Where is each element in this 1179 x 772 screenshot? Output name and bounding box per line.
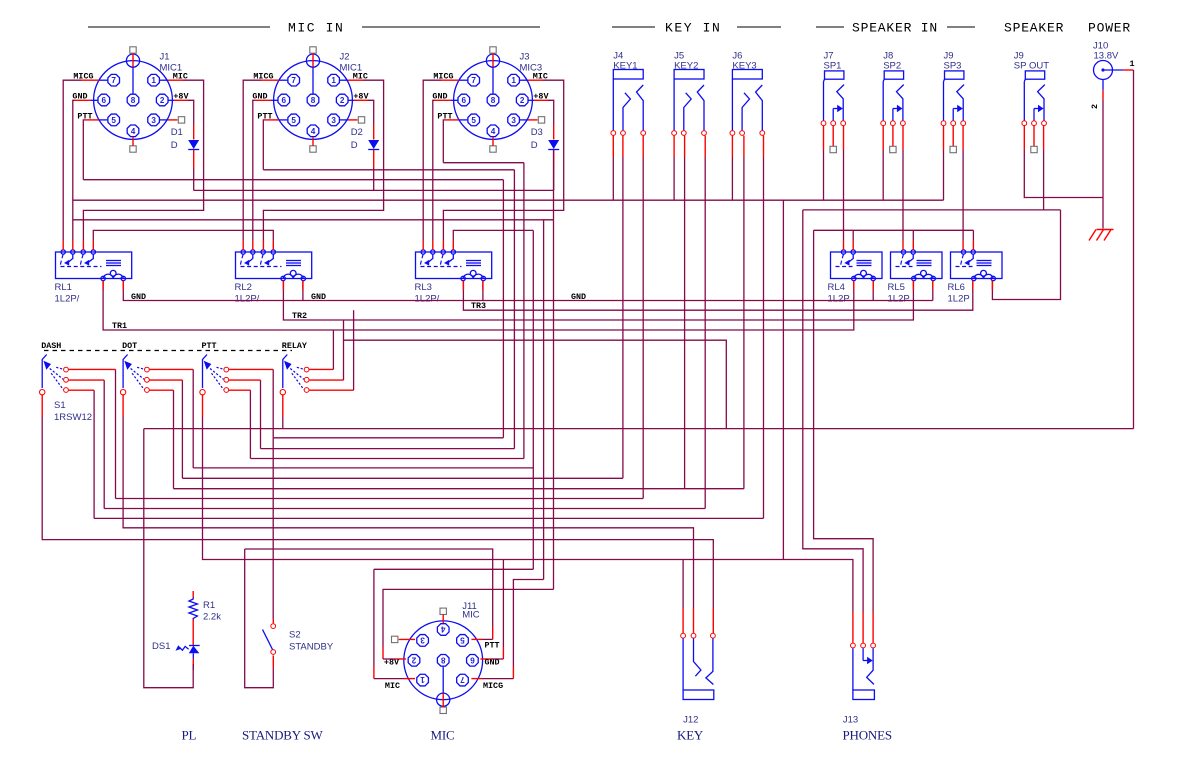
connector J1 pin 6 [98, 94, 110, 106]
diode D3 anode stub [553, 125, 555, 140]
wire J3 PTT riser segment [523, 163, 525, 459]
wire stub S1 RELAY common stub [282, 394, 284, 417]
wire stub J8 sleeve stub [882, 126, 884, 150]
svg-text:PHONES: PHONES [843, 728, 892, 743]
wire stub RL6 coil left stub [972, 281, 974, 290]
relay RL6 coil [977, 260, 992, 262]
wire J11 MIC link [373, 569, 375, 666]
pin lead MICG (pin7) [99, 79, 107, 81]
pin lead GND (pin6) [271, 99, 278, 101]
wire stub J12 ring stub [712, 608, 714, 633]
wire J3 MIC run down [443, 80, 563, 240]
switch S2 bottom stub [272, 655, 274, 668]
J11 pin 6 stub GND [480, 658, 491, 660]
connector J11 pin 4 stub [442, 615, 444, 624]
relay RL3 coil [466, 260, 481, 262]
svg-text:STANDBY: STANDBY [289, 642, 334, 653]
wire stub relay t2 stub J3 [432, 241, 434, 251]
relay RL1 contact terminal 3 [81, 250, 85, 254]
svg-text:5: 5 [111, 116, 116, 125]
connector J1 pin 4 [127, 125, 139, 137]
wire J1 MICG to relay t1 [63, 80, 81, 240]
wire stub J7 sleeve stub [823, 126, 825, 150]
wire stub J9 SP OUT tip stub [1043, 126, 1045, 150]
wire J1 +8V to diode [188, 100, 194, 125]
wire J3 MICG to relay t1 [423, 80, 441, 240]
connector J2 shell terminal squares [310, 47, 316, 53]
switch S1 section DASH common terminal [40, 390, 45, 395]
wire stub RL3 coil left stub [462, 281, 464, 290]
J11 pin 3 stub to unconnected square [399, 638, 415, 640]
switch S1 section RELAY wiper arrow [284, 361, 292, 370]
relay RL4 coil terminals [852, 276, 856, 280]
wire lamp branch down [144, 429, 193, 688]
svg-text:1: 1 [331, 76, 336, 85]
connector J1 pin 1 [148, 74, 160, 86]
wire relay common line RL1 t2 [73, 219, 554, 221]
connector J10 pin 1 lead [1105, 69, 1124, 71]
wire stub J11 pin1 stub [373, 666, 375, 679]
wire DASH bot line [94, 517, 763, 519]
wire J2 PTT riser segment [513, 170, 515, 449]
diode D1 anode stub [193, 125, 195, 140]
svg-text:J2: J2 [340, 52, 350, 63]
wire stub RL6 t1 stub [962, 241, 964, 251]
svg-text:5: 5 [471, 116, 476, 125]
wire TR2 line [283, 281, 913, 320]
wire DOT top line [193, 467, 533, 469]
wire stub J6 tip stub [763, 136, 765, 157]
svg-text:+8V: +8V [173, 92, 189, 102]
svg-text:DOT: DOT [122, 341, 137, 351]
wire stub RL6 coil right stub [991, 281, 993, 290]
svg-text:PTT: PTT [485, 641, 500, 651]
relay RL5 coil terminals [912, 276, 916, 280]
ground symbol (chassis) at power input [1089, 230, 1096, 241]
wire S1 RELAY contact 3 riser [353, 310, 355, 390]
connector J11 pin 4 [437, 624, 449, 636]
connector J2 pin 7 [288, 74, 300, 86]
LED DS1 [189, 645, 200, 647]
svg-text:POWER: POWER [1088, 21, 1131, 36]
wire stub S1 DASH common stub [41, 394, 43, 417]
svg-text:1L2P: 1L2P [828, 294, 850, 305]
connector J1 shell terminal squares [130, 47, 136, 53]
relay RL5 coil [917, 260, 932, 262]
wire stub S1 DASH contact 3 lead [69, 389, 95, 391]
wire J1 PTT riser segment [502, 180, 504, 438]
jack J9 SP3 body [945, 71, 964, 79]
svg-text:4: 4 [491, 127, 496, 136]
jack J12 KEY body [683, 690, 714, 700]
wire J2 GND down to relay t2 [253, 100, 255, 240]
svg-text:GND: GND [252, 92, 267, 102]
svg-text:PTT: PTT [202, 341, 217, 351]
wire S1 DOT contact 1 drop [192, 369, 194, 468]
connector J2 pin 3 [328, 114, 340, 126]
wire J7 sleeve to GND bus [823, 150, 825, 200]
relay RL1 switch contacts [60, 254, 63, 266]
svg-text:S1: S1 [54, 400, 66, 411]
wire stub RL6 t2 stub [972, 241, 974, 251]
svg-text:6: 6 [470, 655, 475, 664]
wire coil return drop [872, 281, 874, 301]
pin lead PTT (pin5) [99, 119, 107, 121]
wire stub J5 sleeve stub [673, 136, 675, 157]
pin lead GND (pin6) [451, 99, 458, 101]
diode D1 cathode stub [193, 150, 195, 168]
wire stub relay t2 stub J1 [72, 241, 74, 251]
svg-text:2.2k: 2.2k [203, 612, 221, 623]
svg-text:MICG: MICG [483, 681, 503, 691]
svg-text:+8V: +8V [533, 92, 549, 102]
resistor R1 [189, 598, 197, 621]
wire RL4-6 t2 common line to J13 [814, 229, 974, 231]
J11 pin 1 stub MIC [404, 678, 415, 680]
wire J2 +8V to diode [368, 100, 374, 125]
jack J6 terminals [730, 131, 735, 136]
relay RL5 contact terminals [901, 250, 905, 254]
connector J2 pin 2 [336, 94, 348, 106]
pin lead GND (pin6) [91, 99, 98, 101]
wire S1 RELAY contact 2 riser [343, 320, 345, 380]
diode D2 cathode stub [373, 150, 375, 168]
switch S1 section PTT wiper arrow [204, 361, 212, 370]
svg-text:STANDBY SW: STANDBY SW [242, 728, 324, 743]
wire stub J11 pin6 stub [502, 647, 504, 659]
wire stub J5 tip stub [704, 136, 706, 157]
connector J1 pin 8 internal lead [132, 67, 134, 94]
wire GND coil return line [123, 281, 933, 301]
wire stub J4 tip stub [642, 136, 644, 157]
wire stub S1 DASH contact 1 lead [69, 368, 116, 370]
svg-text:6: 6 [462, 96, 467, 105]
wire J9 sleeve to GND bus [943, 150, 945, 200]
connector J2 pin 1 [328, 74, 340, 86]
svg-text:7: 7 [471, 76, 476, 85]
wire stub J6 sleeve stub [731, 136, 733, 157]
connector J11 pin 3 [417, 635, 429, 647]
connector J11 pin 8 internal lead [442, 667, 444, 694]
wire S1 DASH common to J12 ring [42, 417, 713, 608]
relay RL3 switch contacts [420, 254, 423, 266]
wire J7 tip to relay [843, 150, 845, 241]
wire J8 sleeve to GND bus [882, 150, 884, 200]
wire J3 +8V to diode [548, 100, 554, 125]
svg-text:TR3: TR3 [471, 301, 486, 311]
svg-text:KEY IN: KEY IN [665, 21, 721, 36]
switch S1 section PTT contact terminals [224, 367, 229, 372]
wire stub S1 PTT common stub [202, 394, 204, 417]
wire stub relay t1 stub J2 [242, 241, 244, 251]
pin lead +8V (pin2) [169, 99, 175, 101]
svg-text:D: D [531, 140, 538, 151]
wire GND bus [73, 199, 944, 201]
relay RL3 contact terminal 3 [441, 250, 445, 254]
svg-text:1: 1 [151, 76, 156, 85]
wire stub J9 sleeve stub [943, 126, 945, 150]
wire J1 MIC run down [83, 80, 203, 240]
wire J5 ring down [684, 157, 686, 489]
relay RL1 contact terminal 2 [71, 250, 75, 254]
svg-text:8: 8 [440, 655, 445, 664]
relay RL3 contact terminal 1 [421, 250, 425, 254]
connector J3 pin 4 stub [492, 137, 494, 146]
connector J3 pin 6 [458, 94, 470, 106]
switch S1 section DOT common terminal [120, 390, 125, 395]
wire J8 tip to relay [902, 150, 904, 241]
connector J2 pin 8 [307, 94, 319, 106]
svg-text:+8V: +8V [353, 92, 369, 102]
relay RL4 1L2P body [831, 252, 883, 279]
svg-text:S2: S2 [289, 630, 301, 641]
connector J1 pin 2 [156, 94, 168, 106]
connector J1 pin 8 [127, 94, 139, 106]
svg-text:1: 1 [1130, 59, 1135, 69]
jack J7 terminals [821, 121, 826, 126]
switch S2 top stub [272, 619, 274, 623]
wire S1 DASH contact 2 drop [103, 380, 105, 508]
relay RL1 1L2P/ body [56, 252, 132, 279]
wire RL5 t2 drop [912, 230, 914, 240]
wire J11 pin5 link [482, 638, 493, 640]
svg-text:SPEAKER: SPEAKER [1004, 21, 1064, 36]
svg-text:6: 6 [282, 96, 287, 105]
wire RL3 t4 link [453, 230, 533, 240]
wire S1 RELAY common to power line [282, 417, 284, 429]
pin 3 lead to unconnected square [160, 119, 168, 121]
wire stub RL4 t1 stub [843, 241, 845, 251]
connector J11 pin 5 [457, 635, 469, 647]
svg-text:1: 1 [420, 675, 425, 684]
svg-text:SP1: SP1 [824, 61, 842, 72]
wire RELAY mid position to supply line [344, 340, 727, 428]
connector J3 pin 8 [487, 94, 499, 106]
connector J10 power jack [1094, 61, 1113, 80]
switch S1 mechanical dashed link [44, 350, 292, 352]
svg-text:D3: D3 [531, 127, 543, 138]
svg-text:4: 4 [131, 127, 136, 136]
connector J11 pin 2 [408, 654, 420, 666]
wire S1 DOT common to J12 mid [123, 417, 693, 608]
wire stub J11 pin7 stub [512, 666, 514, 679]
wire stub S1 PTT contact 1 lead [229, 368, 273, 370]
svg-text:R1: R1 [203, 600, 215, 611]
wire J3 GND down to relay t2 [433, 100, 435, 240]
diode D2 anode stub [373, 125, 375, 140]
relay RL5 1L2P body [891, 252, 943, 279]
wire stub RL1 coil left stub [102, 281, 104, 290]
svg-text:GND: GND [432, 92, 447, 102]
wire S1 PTT contact 2 drop [260, 380, 262, 449]
wire stub S1 RELAY contact 1 lead [309, 368, 333, 370]
relay RL2 contact terminal 4 [271, 250, 275, 254]
wire stub J13 right stub [872, 612, 874, 643]
switch S1 section DOT blades [137, 367, 144, 369]
switch S1 section RELAY contact terminals [304, 367, 309, 372]
wire J9 tip to relay [962, 150, 964, 241]
wire stub S1 DOT common stub [122, 394, 124, 417]
wire J3 PTT horizontal [443, 162, 524, 164]
wire J5 tip down [704, 157, 706, 509]
jack J5 KEY2 body [674, 70, 704, 80]
relay RL1 contact terminal 1 [61, 250, 65, 254]
wire S1 DOT contact 2 drop [181, 380, 183, 478]
connector J3 shell terminal squares [490, 47, 496, 53]
wire stub J9 tip stub [962, 126, 964, 150]
wire J6 tip down [763, 157, 765, 518]
wire stub coil stub [482, 281, 484, 290]
relay RL4 contact terminals [841, 250, 845, 254]
svg-text:D1: D1 [171, 127, 183, 138]
svg-text:RL4: RL4 [828, 282, 845, 293]
relay RL3 coil terminals [461, 276, 465, 280]
wire DOT mid line [182, 477, 623, 479]
connector J11 shell terminal squares [440, 707, 446, 713]
wire stub RL2 t4 stub [272, 241, 274, 251]
wire stub J11 pin2 stub [382, 647, 384, 659]
wire J2 PTT run [263, 120, 265, 170]
wire lamp supply line [144, 428, 1134, 430]
relay RL2 1L2P/ body [236, 252, 312, 279]
jack J7 SP1 body [825, 71, 844, 79]
svg-text:KEY2: KEY2 [674, 61, 698, 72]
connector J1 pin 3 [148, 114, 160, 126]
svg-text:D: D [171, 140, 178, 151]
svg-text:1L2P: 1L2P [948, 294, 970, 305]
relay RL3 contact terminal 4 [451, 250, 455, 254]
wire stub S1 DOT contact 3 lead [150, 389, 174, 391]
relay RL2 contact terminal 3 [261, 250, 265, 254]
wire stub RL4 coil left stub [853, 281, 855, 290]
wire mic select column [532, 230, 534, 569]
switch S1 section DASH pole [42, 355, 47, 389]
wire S2 bottom return [245, 549, 274, 688]
wire RL4 t2 drop [852, 230, 854, 240]
wire J2 PTT horizontal [263, 169, 514, 171]
wire speaker out line [803, 209, 1061, 211]
svg-text:1L2P/: 1L2P/ [55, 294, 80, 305]
relay RL1 contact terminal 4 [91, 250, 95, 254]
switch S1 section RELAY pole [283, 355, 288, 389]
svg-text:D2: D2 [351, 127, 363, 138]
wire ground jog to +8V pin [383, 589, 554, 647]
wire DASH top line [116, 498, 644, 500]
svg-text:KEY3: KEY3 [732, 61, 756, 72]
wire J6 ring down [743, 157, 745, 489]
svg-text:5: 5 [460, 635, 465, 644]
jack J13 PHONES body [853, 690, 875, 700]
connector J1 MIC1 body [94, 61, 173, 140]
wire speaker common to J13 right [814, 230, 874, 612]
connector J3 pin 2 [516, 94, 528, 106]
wire stub RL1 coil right stub [122, 281, 124, 290]
svg-text:7: 7 [111, 76, 116, 85]
connector J3 MIC3 body [454, 61, 533, 140]
title SPEAKER IN with rules [816, 26, 844, 28]
connector J2 pin 8 internal lead [312, 67, 314, 94]
relay RL4 coil [857, 260, 872, 262]
svg-text:MIC: MIC [385, 681, 400, 691]
switch S1 section DASH blades [56, 367, 63, 369]
switch S1 section PTT blades [217, 367, 224, 369]
wire stub J4 sleeve stub [612, 136, 614, 157]
relay RL2 contact terminal 2 [251, 250, 255, 254]
wire S1 PTT contact 3 drop [249, 390, 251, 458]
pin lead +8V (pin2) [529, 99, 535, 101]
switch S1 section DASH wiper arrow [43, 361, 51, 370]
wire coil return drop [302, 281, 304, 301]
svg-text:RL2: RL2 [235, 282, 252, 293]
wire S1 DOT contact 3 drop [173, 390, 175, 489]
wire stub J4 ring stub [622, 136, 624, 157]
wire J3 PTT run [443, 120, 445, 163]
wire S1 DASH contact 3 drop [93, 390, 95, 518]
wire TR1 line [103, 281, 854, 330]
wire RL6 t2 drop [972, 230, 974, 240]
wire J11 pin7 lead link [482, 678, 513, 680]
resistor R1 bottom stub [192, 619, 194, 645]
wire S2 branch [272, 438, 274, 619]
connector J2 pin 5 [288, 114, 300, 126]
svg-text:SP2: SP2 [883, 61, 901, 72]
wire stub RL4 t2 stub [852, 241, 854, 251]
connector J1 pin 5 [108, 114, 120, 126]
svg-text:MIC: MIC [431, 728, 455, 743]
wire MICG jog column from relay common line [543, 220, 545, 580]
svg-text:RL3: RL3 [415, 282, 432, 293]
pin lead MICG (pin7) [279, 79, 287, 81]
wire J11 pin2 lead [383, 658, 395, 660]
wire S2 to J11 PTT pin [245, 549, 493, 627]
svg-text:J13: J13 [843, 715, 858, 726]
connector J2 pin 6 [278, 94, 290, 106]
relay RL1 coil [106, 260, 121, 262]
wire stub J9 SP OUT sleeve stub [1023, 126, 1025, 150]
pin lead MIC (pin1) [340, 79, 348, 81]
svg-text:2: 2 [1090, 104, 1100, 109]
wire stub S1 PTT contact 3 lead [229, 389, 251, 391]
wire J11 pin6 lead [491, 658, 503, 660]
J11 pin 2 stub +8V [395, 658, 406, 660]
relay RL6 switch contact [961, 254, 964, 266]
wire RL1 t4 to RL2 t4 link [93, 230, 273, 240]
switch S1 section PTT common terminal [200, 390, 205, 395]
J11 pin 5 stub PTT [471, 638, 482, 640]
connector J3 shell stubs [492, 53, 494, 67]
wire stub coil stub [302, 281, 304, 290]
wire +8V diode bus [193, 168, 195, 190]
relay RL2 coil [286, 260, 301, 262]
wire coil return drop [482, 281, 484, 301]
svg-text:8: 8 [131, 96, 136, 105]
diode D3 cathode stub [553, 150, 555, 168]
diode D1 symbol [188, 140, 199, 149]
pin lead MIC (pin1) [520, 79, 528, 81]
svg-text:DASH: DASH [41, 341, 61, 351]
relay RL4 switch contact [841, 254, 844, 266]
svg-text:MIC IN: MIC IN [288, 21, 344, 36]
connector J1 pin 4 stub [132, 137, 134, 146]
connector J11 pin 7 [457, 674, 469, 686]
wire stub S1 DOT contact 1 lead [150, 368, 194, 370]
wire MICG jog to pin7 [513, 580, 543, 667]
pin lead MICG (pin7) [459, 79, 467, 81]
relay RL6 1L2P body [951, 252, 1003, 279]
relay RL6 coil terminals [972, 276, 976, 280]
switch S1 section RELAY blades [297, 367, 304, 369]
jack J9 SP OUT body [1025, 71, 1044, 79]
